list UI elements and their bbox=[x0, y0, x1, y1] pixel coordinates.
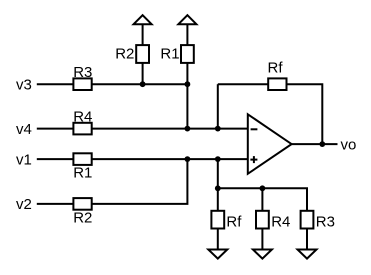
wire v1 to op-amp plus input bbox=[92, 158, 248, 160]
svg-text:R4: R4 bbox=[73, 109, 92, 126]
ground under R3 bbox=[298, 250, 317, 259]
node dot rail/Rf bbox=[215, 185, 221, 191]
resistor R1 (horizontal) bbox=[73, 153, 91, 165]
wire rail to R4 bottom resistor bbox=[261, 188, 263, 211]
wire v1 left segment bbox=[37, 158, 74, 160]
svg-text:R1: R1 bbox=[160, 46, 179, 63]
resistor R3 (horizontal) bbox=[73, 78, 91, 90]
wire v4 left segment bbox=[37, 128, 74, 130]
resistor R2 (vertical, top) bbox=[136, 45, 149, 63]
wire feedback top right segment and right vertical bbox=[287, 84, 323, 144]
op-amp U1 bbox=[248, 114, 292, 174]
power arrow above R1 bbox=[178, 15, 196, 45]
svg-text:v4: v4 bbox=[16, 121, 32, 138]
svg-text:R1: R1 bbox=[73, 165, 92, 182]
wire feedback left vertical bbox=[217, 84, 219, 128]
wire op-amp output to vo bbox=[292, 143, 338, 145]
node dot v3/R2 bbox=[140, 81, 146, 87]
wire R1 bottom down to v4 line bbox=[186, 63, 188, 129]
resistor R4 (bottom, vertical) bbox=[256, 211, 269, 229]
svg-text:R2: R2 bbox=[73, 209, 92, 226]
svg-text:Rf: Rf bbox=[268, 59, 284, 76]
svg-text:v3: v3 bbox=[16, 76, 32, 93]
resistor Rf (feedback) bbox=[268, 78, 286, 90]
wire v4 to op-amp minus input bbox=[92, 128, 248, 130]
wire R4 bottom to ground bbox=[261, 229, 263, 250]
node dot v4/feedback bbox=[215, 126, 221, 132]
wire v2 to riser corner bbox=[92, 159, 188, 204]
node dot v1/v2 bbox=[185, 156, 191, 162]
wire v3 left segment bbox=[37, 83, 74, 85]
svg-text:v2: v2 bbox=[16, 196, 32, 213]
ground under Rf bbox=[208, 250, 227, 259]
resistor R4 (horizontal) bbox=[73, 123, 91, 135]
resistor R2 (horizontal) bbox=[73, 198, 91, 210]
wire v2 left segment bbox=[37, 203, 74, 205]
resistor R3 (bottom, vertical) bbox=[301, 211, 314, 229]
wire feedback top left segment bbox=[218, 83, 268, 85]
resistor Rf (bottom, vertical) bbox=[211, 211, 224, 229]
op-amp minus sign bbox=[251, 128, 258, 130]
power arrow above R2 bbox=[134, 15, 152, 45]
svg-text:R3: R3 bbox=[316, 213, 335, 230]
node dot v1/bottom bbox=[215, 156, 221, 162]
svg-text:Rf: Rf bbox=[226, 213, 242, 230]
svg-text:vo: vo bbox=[341, 136, 357, 153]
wire rail to Rf bottom resistor bbox=[217, 188, 219, 211]
svg-text:v1: v1 bbox=[16, 151, 32, 168]
wire v3 right segment bbox=[92, 83, 188, 85]
wire Rf bottom to ground bbox=[217, 229, 219, 250]
wire bottom rail bbox=[218, 188, 307, 211]
wire plus node down to bottom rail bbox=[217, 159, 219, 188]
svg-text:R4: R4 bbox=[271, 213, 290, 230]
node dot output/feedback bbox=[319, 141, 325, 147]
svg-text:R2: R2 bbox=[115, 46, 134, 63]
resistor R1 (vertical, top) bbox=[181, 45, 194, 63]
ground under R4 bbox=[253, 250, 272, 259]
svg-text:R3: R3 bbox=[73, 64, 92, 81]
node dot v3/R1 bbox=[185, 81, 191, 87]
node dot rail/R4 bbox=[260, 185, 266, 191]
node dot v4/R1 bbox=[185, 126, 191, 132]
wire R3 bottom to ground bbox=[306, 229, 308, 250]
wire R2 bottom to v3 line bbox=[142, 63, 144, 84]
op-amp plus sign bbox=[250, 156, 257, 163]
